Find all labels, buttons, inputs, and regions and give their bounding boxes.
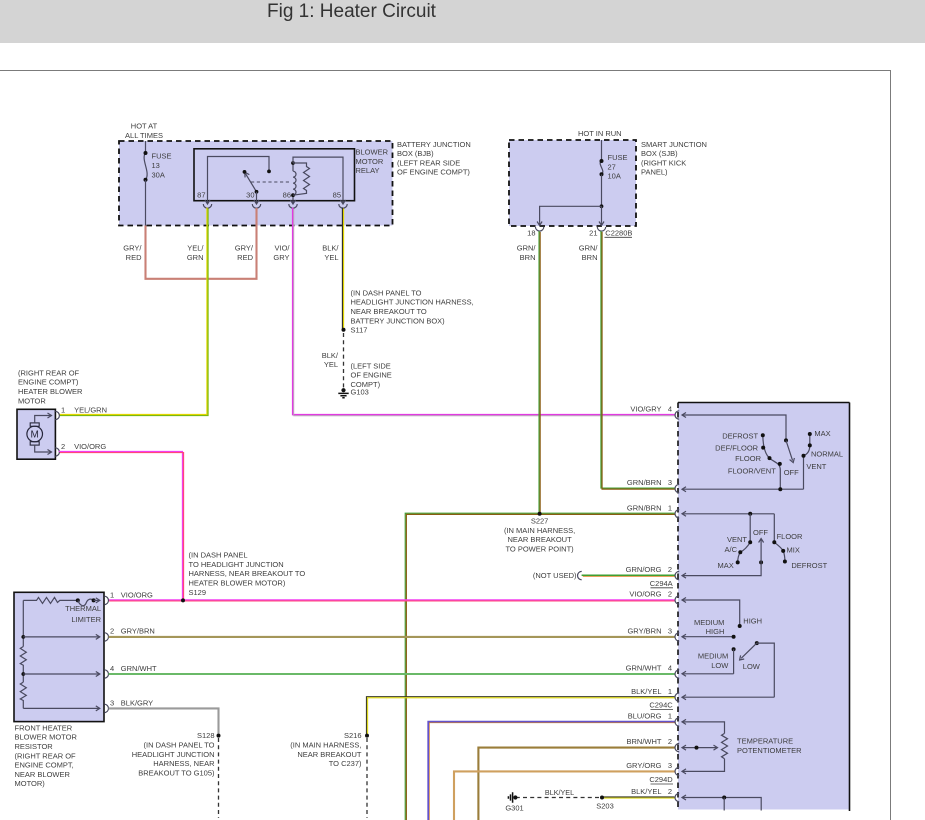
relay internal: pin 87 branch to fixed contact	[208, 157, 271, 201]
svg-text:BOX (BJB): BOX (BJB)	[397, 149, 434, 158]
wire BLK/YEL relay pin 85 to splice S117	[342, 207, 343, 329]
svg-text:MEDIUM: MEDIUM	[698, 651, 728, 660]
rear defrost feed: pin 2 BLK/YEL internal rail	[682, 795, 761, 811]
svg-text:TO POWER POINT): TO POWER POINT)	[505, 544, 574, 553]
svg-text:BOX (SJB): BOX (SJB)	[641, 149, 678, 158]
svg-text:GRY/: GRY/	[235, 244, 254, 253]
SJB pin 21 arrow and connector cup	[597, 222, 605, 232]
mode switch: pin 4 internal rail to wiper common	[682, 413, 788, 443]
svg-text:DEFROST: DEFROST	[722, 431, 758, 440]
svg-text:S227: S227	[531, 517, 549, 526]
svg-text:RED: RED	[237, 253, 253, 262]
wire BLU/ORG switch pin 1 C294D area down off page	[428, 722, 676, 820]
dashed wire BLK/YEL S117 to ground G103	[343, 333, 345, 388]
svg-text:BLK/: BLK/	[322, 244, 339, 253]
svg-text:POTENTIOMETER: POTENTIOMETER	[737, 746, 802, 755]
resistor box	[14, 592, 104, 721]
internal rail pin 2	[23, 636, 99, 638]
svg-text:S117: S117	[351, 326, 368, 335]
svg-text:TO HEADLIGHT JUNCTION: TO HEADLIGHT JUNCTION	[189, 560, 284, 569]
svg-text:27: 27	[608, 162, 616, 171]
svg-text:(NOT USED): (NOT USED)	[533, 571, 577, 580]
label GRN/BRN (pin 18)	[517, 244, 537, 262]
blower switch wiper LOW	[740, 641, 775, 697]
label BATTERY JUNCTION BOX	[397, 140, 471, 177]
svg-text:BLK/YEL: BLK/YEL	[631, 787, 661, 796]
wire YEL/GRN relay pin 87 to blower motor pin 1	[59, 207, 208, 415]
connector C2280B label	[527, 228, 632, 237]
svg-text:OF ENGINE: OF ENGINE	[351, 371, 392, 380]
wire GRY/ORG switch pin 3 down off page	[454, 771, 675, 820]
svg-text:13: 13	[152, 161, 160, 170]
svg-text:MOTOR): MOTOR)	[15, 779, 46, 788]
svg-text:GRN: GRN	[187, 253, 204, 262]
svg-text:ALL TIMES: ALL TIMES	[125, 131, 163, 140]
svg-text:HOT IN RUN: HOT IN RUN	[578, 129, 622, 138]
svg-text:SMART JUNCTION: SMART JUNCTION	[641, 140, 707, 149]
svg-text:YEL: YEL	[324, 253, 338, 262]
svg-text:VENT: VENT	[727, 535, 747, 544]
thermal limiter element	[76, 598, 99, 605]
svg-text:(IN DASH PANEL: (IN DASH PANEL	[189, 551, 248, 560]
label GRY/RED (left)	[123, 244, 142, 262]
wire GRY/BRN resistor pin 2 to switch pin 3	[109, 636, 675, 638]
label SMART JUNCTION BOX	[641, 140, 707, 177]
battery junction box (BJB) dashed box	[119, 141, 393, 226]
svg-text:4: 4	[668, 663, 672, 672]
wire VIO/GRY relay pin 86 to mode switch pin 4	[293, 208, 676, 416]
svg-text:GRN/ORG: GRN/ORG	[626, 565, 662, 574]
svg-text:VIO/: VIO/	[274, 244, 290, 253]
svg-text:(IN DASH PANEL TO: (IN DASH PANEL TO	[351, 288, 422, 297]
internal resistor R1 (top horizontal)	[23, 597, 77, 603]
svg-text:(RIGHT KICK: (RIGHT KICK	[641, 158, 686, 167]
svg-text:FRONT HEATER: FRONT HEATER	[15, 723, 73, 732]
mode switch: pin 3 internal rail	[682, 487, 804, 492]
blower motor relay box	[194, 149, 355, 201]
mode switch left contacts DEFROST DEF/FLOOR FLOOR FLOOR/VENT	[761, 433, 782, 489]
svg-text:HEADLIGHT JUNCTION: HEADLIGHT JUNCTION	[132, 750, 215, 759]
svg-text:YEL/: YEL/	[187, 244, 204, 253]
svg-text:S216: S216	[344, 731, 362, 740]
AC switch right contacts FLOOR MIX DEFROST	[772, 540, 787, 563]
svg-text:30: 30	[246, 191, 254, 200]
svg-text:C294A: C294A	[650, 579, 673, 588]
svg-text:MAX: MAX	[814, 429, 830, 438]
svg-text:3: 3	[668, 478, 672, 487]
svg-text:VIO/GRY: VIO/GRY	[630, 405, 661, 414]
svg-text:BLK/YEL: BLK/YEL	[545, 788, 574, 797]
blower switch: MEDIUM LOW contact to pin 4 GRN/WHT rail	[682, 647, 736, 676]
svg-text:G301: G301	[505, 804, 523, 813]
svg-text:BLK/GRY: BLK/GRY	[121, 698, 153, 707]
svg-text:LOW: LOW	[743, 662, 761, 671]
label VIO/GRY	[273, 244, 290, 262]
relay pin labels	[197, 191, 341, 200]
switch assembly box	[678, 403, 850, 812]
pin connector cups	[104, 596, 108, 712]
blower switch: pin 3 GRY/BRN internal rail to MEDIUM HIGH contact	[682, 634, 736, 639]
relay internal: coil (pin 86) with parallel resistor to pin 85	[291, 157, 343, 201]
svg-text:(LEFT REAR SIDE: (LEFT REAR SIDE	[397, 158, 460, 167]
svg-text:HIGH: HIGH	[743, 616, 762, 625]
svg-text:NEAR BLOWER: NEAR BLOWER	[15, 770, 71, 779]
dashed wire BLK/YEL S203 to ground G301	[517, 788, 599, 797]
title bar	[0, 0, 925, 43]
svg-text:MOTOR: MOTOR	[356, 157, 384, 166]
svg-text:Fig 1: Heater Circuit: Fig 1: Heater Circuit	[267, 1, 437, 22]
svg-text:HARNESS, NEAR BREAKOUT TO: HARNESS, NEAR BREAKOUT TO	[189, 569, 306, 578]
label GRY/RED (pin 30)	[235, 244, 254, 262]
svg-text:1: 1	[110, 590, 114, 599]
mode switch right contacts MAX NORMAL VENT	[802, 432, 812, 489]
svg-text:MEDIUM: MEDIUM	[694, 618, 724, 627]
wire GRN/ORG (NOT USED) to switch pin 2 C294A	[533, 571, 676, 580]
svg-text:2: 2	[110, 627, 114, 636]
temperature potentiometer resistor	[722, 733, 728, 758]
svg-text:VIO/ORG: VIO/ORG	[629, 590, 661, 599]
svg-text:BREAKOUT TO G105): BREAKOUT TO G105)	[138, 768, 215, 777]
connector cups on switch box left edge	[675, 411, 679, 802]
wire GRN/BRN SJB pin 18 to splice S227	[539, 231, 540, 514]
svg-text:C2280B: C2280B	[605, 228, 632, 237]
svg-text:2: 2	[668, 590, 672, 599]
svg-text:C294C: C294C	[649, 701, 673, 710]
svg-text:S129: S129	[189, 588, 207, 597]
svg-text:GRN/WHT: GRN/WHT	[626, 663, 662, 672]
svg-text:BATTERY JUNCTION BOX): BATTERY JUNCTION BOX)	[351, 316, 446, 325]
svg-text:FLOOR: FLOOR	[777, 532, 803, 541]
label BLOWER MOTOR RELAY	[356, 148, 389, 176]
svg-text:LIMITER: LIMITER	[71, 615, 101, 624]
svg-text:GRY: GRY	[273, 253, 289, 262]
svg-text:OFF: OFF	[753, 528, 768, 537]
wire GRY/RED fuse13 to relay pin 30	[146, 208, 257, 279]
splice S117	[342, 288, 474, 334]
svg-text:A/C: A/C	[724, 545, 737, 554]
svg-text:HEATER BLOWER: HEATER BLOWER	[18, 387, 83, 396]
relay pin 86 arrow and connector cup	[289, 200, 297, 208]
relay pin 87 arrow and connector cup	[203, 200, 211, 208]
svg-text:2: 2	[668, 565, 672, 574]
svg-text:3: 3	[668, 626, 672, 635]
svg-text:GRN/: GRN/	[579, 244, 599, 253]
wire BLK/YEL switch pin 1 (C294C) to splice S216	[366, 697, 675, 736]
label YEL/GRN	[187, 244, 205, 262]
AC switch: pin 2 internal rail from wiper	[682, 562, 761, 578]
mode switch position labels	[715, 429, 843, 477]
svg-text:ENGINE COMPT,: ENGINE COMPT,	[15, 761, 74, 770]
label TEMPERATURE POTENTIOMETER	[737, 737, 802, 756]
svg-text:PANEL): PANEL)	[641, 168, 668, 177]
svg-text:BRN: BRN	[520, 253, 536, 262]
connector C294C label	[649, 701, 673, 710]
svg-text:(LEFT SIDE: (LEFT SIDE	[351, 361, 391, 370]
svg-text:G103: G103	[351, 387, 369, 396]
svg-text:NEAR BREAKOUT: NEAR BREAKOUT	[508, 535, 573, 544]
blower switch: pin 1 BLK/YEL internal rail	[682, 695, 774, 700]
svg-text:1: 1	[668, 687, 672, 696]
splice S227	[504, 512, 575, 554]
label BLK/YEL	[322, 244, 339, 262]
svg-text:TO C237): TO C237)	[329, 759, 362, 768]
heater blower motor box	[17, 409, 55, 459]
fuse F13 30A	[144, 141, 172, 226]
connector C294A label	[650, 579, 673, 588]
svg-text:3: 3	[668, 761, 672, 770]
svg-text:RELAY: RELAY	[356, 166, 380, 175]
ground G301	[505, 792, 523, 812]
svg-text:BATTERY JUNCTION: BATTERY JUNCTION	[397, 140, 471, 149]
svg-text:87: 87	[197, 191, 205, 200]
svg-text:86: 86	[283, 191, 291, 200]
svg-text:BRN/WHT: BRN/WHT	[627, 737, 662, 746]
AC switch left contacts VENT A/C MAX	[736, 540, 753, 564]
svg-text:BLU/ORG: BLU/ORG	[628, 712, 662, 721]
potentiometer bottom to pin 3 GRY/ORG rail	[682, 759, 725, 774]
svg-text:FLOOR/VENT: FLOOR/VENT	[728, 467, 776, 476]
svg-text:FUSE: FUSE	[608, 153, 628, 162]
svg-text:3: 3	[110, 698, 114, 707]
svg-text:GRN/: GRN/	[517, 244, 537, 253]
svg-text:MOTOR: MOTOR	[18, 396, 46, 405]
internal left bus with resistors R2 R3	[20, 600, 26, 708]
svg-text:GRY/ORG: GRY/ORG	[626, 761, 661, 770]
label BLK/ YEL (ground leg)	[322, 351, 339, 369]
wire VIO/ORG thermal limiter pin 1 rail to switch pin 2	[108, 600, 676, 601]
svg-text:2: 2	[668, 737, 672, 746]
svg-text:BRN: BRN	[582, 253, 598, 262]
svg-text:OF ENGINE COMPT): OF ENGINE COMPT)	[397, 168, 470, 177]
wire VIO/ORG motor pin 2 to splice S129	[59, 451, 184, 601]
potentiometer wiper pin 2 BRN/WHT	[682, 745, 718, 750]
svg-text:GRN/BRN: GRN/BRN	[627, 503, 662, 512]
svg-text:YEL: YEL	[324, 360, 338, 369]
svg-text:MIX: MIX	[787, 545, 800, 554]
motor pin labels	[61, 406, 107, 452]
svg-text:HARNESS, NEAR: HARNESS, NEAR	[153, 759, 215, 768]
SJB pin 18 arrow and connector cup	[535, 222, 543, 232]
smart junction box (SJB) dashed box	[509, 140, 636, 226]
label GRN/BRN (pin 21)	[579, 244, 599, 262]
svg-text:S203: S203	[596, 801, 614, 810]
svg-text:GRY/BRN: GRY/BRN	[121, 627, 155, 636]
svg-text:TEMPERATURE: TEMPERATURE	[737, 737, 793, 746]
wire BRN/WHT switch pin 2 down off page	[478, 748, 675, 820]
svg-text:10A: 10A	[608, 172, 621, 181]
svg-text:FUSE: FUSE	[152, 152, 172, 161]
svg-text:GRY/BRN: GRY/BRN	[627, 626, 661, 635]
dashed wire below S128	[218, 738, 220, 818]
svg-text:BLK/YEL: BLK/YEL	[631, 687, 661, 696]
relay pin 30 arrow and connector cup	[252, 200, 260, 208]
pin arrows at box edge	[96, 598, 100, 711]
svg-text:GRN/BRN: GRN/BRN	[627, 478, 662, 487]
internal rail pin 3	[23, 707, 99, 709]
label HOT AT ALL TIMES	[125, 122, 163, 140]
wire BLK/GRY resistor pin 3 to splice S128	[109, 708, 219, 735]
AC function switch: pin 1 internal rail	[682, 511, 774, 542]
svg-text:18: 18	[527, 228, 535, 237]
svg-text:GRN/WHT: GRN/WHT	[121, 664, 157, 673]
splice S129	[181, 551, 305, 603]
temperature potentiometer: pin 1 BLU/ORG rail	[682, 719, 725, 733]
switch pin labels left edge	[626, 405, 672, 796]
svg-text:HOT AT: HOT AT	[131, 122, 158, 131]
wire GRN/WHT resistor pin 4 to switch pin 4	[109, 673, 675, 675]
svg-text:2: 2	[668, 787, 672, 796]
label THERMAL LIMITER	[65, 604, 101, 624]
svg-text:VIO/ORG: VIO/ORG	[121, 590, 153, 599]
relay internal: dashed mechanical link	[251, 181, 290, 183]
svg-text:NEAR BREAKOUT: NEAR BREAKOUT	[297, 750, 362, 759]
svg-text:4: 4	[668, 405, 672, 414]
resistor pin labels	[110, 590, 157, 707]
svg-text:BLOWER MOTOR: BLOWER MOTOR	[15, 733, 78, 742]
connector C294D label	[649, 775, 673, 784]
mode switch wiper toward OFF	[786, 440, 794, 462]
svg-text:S128: S128	[197, 731, 215, 740]
AC switch wiper pointing OFF	[759, 539, 764, 565]
internal rail pin 4	[23, 673, 99, 675]
svg-text:HEATER BLOWER MOTOR): HEATER BLOWER MOTOR)	[189, 579, 286, 588]
splice S128	[132, 731, 221, 777]
svg-text:HIGH: HIGH	[706, 627, 725, 636]
svg-text:VIO/ORG: VIO/ORG	[74, 442, 106, 451]
blower switch labels	[694, 616, 762, 671]
svg-text:RESISTOR: RESISTOR	[15, 742, 54, 751]
svg-text:M: M	[31, 430, 39, 441]
svg-text:VENT: VENT	[806, 462, 826, 471]
svg-text:(RIGHT REAR OF: (RIGHT REAR OF	[15, 751, 77, 760]
svg-text:DEFROST: DEFROST	[791, 561, 827, 570]
label (RIGHT REAR OF ENGINE COMPT) HEATER BLOWER MOTOR	[18, 368, 83, 405]
svg-text:LOW: LOW	[711, 661, 729, 670]
svg-text:1: 1	[61, 406, 65, 415]
splice S203	[596, 796, 614, 811]
svg-text:BLOWER: BLOWER	[356, 148, 389, 157]
svg-text:HEADLIGHT JUNCTION HARNESS,: HEADLIGHT JUNCTION HARNESS,	[351, 298, 474, 307]
svg-text:NEAR BREAKOUT TO: NEAR BREAKOUT TO	[351, 307, 427, 316]
svg-text:C294D: C294D	[649, 775, 673, 784]
svg-text:(IN MAIN HARNESS,: (IN MAIN HARNESS,	[290, 741, 361, 750]
motor internal lead pin 2	[35, 445, 52, 454]
motor internal lead pin 1	[35, 413, 52, 423]
svg-text:30A: 30A	[152, 170, 165, 179]
svg-text:RED: RED	[126, 253, 142, 262]
fuse F27 10A	[600, 140, 628, 206]
svg-text:1: 1	[668, 503, 672, 512]
svg-text:21: 21	[589, 228, 597, 237]
wire GRN/BRN SJB pin 21 to mode switch pin 3	[601, 231, 676, 489]
label (LEFT SIDE OF ENGINE COMPT)	[351, 361, 392, 396]
ground G103	[338, 388, 348, 398]
svg-text:ENGINE COMPT): ENGINE COMPT)	[18, 378, 79, 387]
svg-text:BLK/: BLK/	[322, 351, 339, 360]
relay internal: switch arm from pin 30	[243, 170, 259, 201]
svg-text:NORMAL: NORMAL	[811, 450, 843, 459]
AC switch position labels	[718, 528, 828, 570]
svg-text:(IN DASH PANEL TO: (IN DASH PANEL TO	[144, 741, 215, 750]
label FRONT HEATER BLOWER MOTOR RESISTOR	[15, 723, 78, 788]
relay pin 85 arrow and connector cup	[339, 200, 347, 208]
motor pin 2 connector cup	[55, 448, 59, 456]
motor pin 1 connector cup	[55, 411, 59, 419]
svg-text:2: 2	[61, 442, 65, 451]
dashed wire below S216	[366, 738, 368, 818]
svg-text:1: 1	[668, 712, 672, 721]
svg-text:YEL/GRN: YEL/GRN	[74, 406, 107, 415]
svg-text:DEF/FLOOR: DEF/FLOOR	[715, 444, 759, 453]
svg-text:OFF: OFF	[784, 468, 799, 477]
splice S216	[290, 731, 369, 768]
motor symbol M	[27, 423, 43, 445]
wire BLK/YEL switch pin 2 (bottom) to splice S203	[601, 797, 675, 798]
svg-text:85: 85	[333, 191, 341, 200]
svg-text:FLOOR: FLOOR	[735, 454, 761, 463]
wire GRN/BRN splice S227 rail to switch pin 1 and down off page	[405, 513, 675, 820]
svg-text:4: 4	[110, 664, 114, 673]
svg-text:(IN MAIN HARNESS,: (IN MAIN HARNESS,	[504, 526, 575, 535]
svg-text:MAX: MAX	[718, 561, 734, 570]
SJB internal branch to pins 18 and 21	[540, 204, 604, 222]
blower switch: pin 2 VIO/ORG internal rail to HIGH	[682, 598, 742, 629]
svg-text:GRY/: GRY/	[123, 244, 142, 253]
svg-text:(RIGHT REAR OF: (RIGHT REAR OF	[18, 368, 80, 377]
